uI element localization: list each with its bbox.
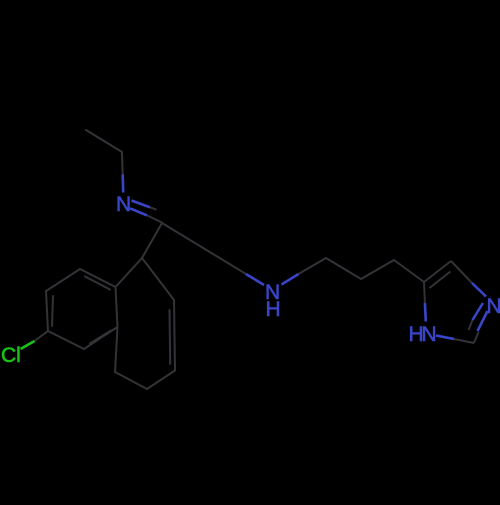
wire imidazole N3=C2 double bond main blue half bbox=[478, 311, 488, 331]
wire bonds of carbon skeleton bbox=[46, 223, 246, 389]
wire imidazole C5-C4 double bond inner bbox=[430, 272, 451, 289]
wire N=C imine double bond inner line blue half bbox=[132, 201, 151, 208]
wire N=C imine double bond main line blue half bbox=[130, 208, 147, 215]
wire imidazole N1-C5 bond blue half bbox=[424, 303, 427, 322]
svg-text:N: N bbox=[422, 323, 437, 346]
wire aromatic inner line P3P4 bbox=[85, 277, 110, 290]
wire imidazole C4-N3 bond carbon half bbox=[451, 261, 472, 283]
wire imine C to ring C bond bbox=[142, 223, 162, 258]
wire eight ring vertical double bond inner bbox=[169, 310, 172, 364]
wire NH to C b bond carbon half bbox=[299, 258, 327, 274]
wire imidazole N1-C5 bond carbon half bbox=[423, 282, 426, 303]
wire N=C imine double bond inner line carbon tail bbox=[150, 207, 157, 209]
wire C alpha to NH bond blue half bbox=[246, 274, 264, 285]
wire propyl chain bbox=[326, 258, 424, 282]
wire CH2-N imine bond nitrogen half bbox=[121, 175, 124, 193]
svg-text:H: H bbox=[266, 298, 281, 321]
svg-text:N: N bbox=[116, 193, 131, 216]
wire imidazole N3=C2 double bond inner carbon tail bbox=[469, 320, 473, 330]
wire eight ring Cx-Cz bond bbox=[142, 258, 174, 300]
wire eight ring B2-B1 bond bbox=[115, 372, 147, 389]
wire ethyl CH3-CH2 bond bbox=[86, 130, 122, 152]
svg-text:Cl: Cl bbox=[1, 344, 21, 367]
wire eight ring vertical double bond main bbox=[174, 300, 175, 371]
wire imidazole C2-N1 bond blue half bbox=[436, 336, 454, 340]
wire imidazole N3=C2 double bond inner blue bbox=[473, 303, 484, 320]
wire imidazole C2-N1 bond carbon half bbox=[454, 339, 474, 343]
wire aromatic inner line P1P2 bbox=[52, 296, 53, 326]
wire aromatic inner line P5P6 bbox=[90, 331, 111, 344]
wire imidazole C5-C4 double bond main bbox=[424, 261, 451, 282]
wire imidazole N3=C2 double bond main carbon half bbox=[474, 332, 479, 343]
wire chlorine bond carbon half bbox=[35, 331, 49, 341]
wire NH to C b bond blue half bbox=[282, 274, 299, 285]
benzene ring chlorophenyl bbox=[46, 269, 118, 349]
svg-text:N: N bbox=[487, 295, 500, 318]
wire N=C imine double bond main line carbon half bbox=[147, 215, 162, 222]
wire imidazole C4-N3 bond blue half bbox=[472, 283, 486, 297]
wire chlorine bond green half bbox=[21, 341, 35, 349]
wire long bond imine C to C alpha and on to amine midpoint bbox=[162, 223, 246, 274]
wire eight ring B3-B2 bond bbox=[147, 371, 175, 390]
wire CH2-N imine bond carbon half bbox=[121, 152, 124, 175]
wire eight ring B1-P5 bond bbox=[115, 327, 118, 372]
wire ring C to phenyl C4 bond bbox=[116, 258, 143, 287]
